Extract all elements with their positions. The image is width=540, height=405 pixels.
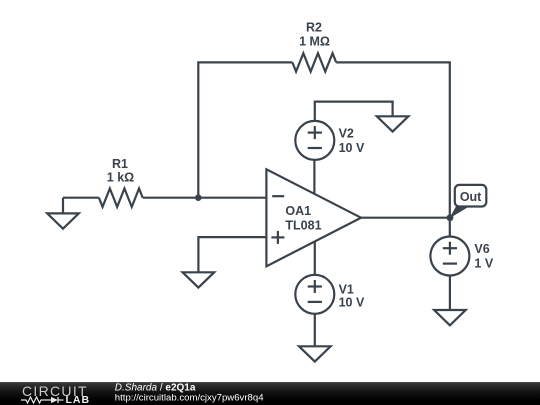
ground (V2 positive rail) xyxy=(377,116,409,131)
wire (R2 to output node) xyxy=(336,62,450,217)
wire (non-inverting input to ground stub) xyxy=(198,237,266,272)
svg-text:Out: Out xyxy=(460,190,482,204)
svg-text:V2: V2 xyxy=(339,126,354,140)
ground (non-inverting input) xyxy=(183,272,215,287)
voltage source V6 xyxy=(430,237,469,276)
svg-text:OA1: OA1 xyxy=(285,204,311,218)
resistor R1 xyxy=(99,189,143,207)
wire (R1 to op-amp inverting input) xyxy=(143,197,267,199)
svg-text:1 MΩ: 1 MΩ xyxy=(299,35,330,49)
wire (output node to V6) xyxy=(449,218,451,237)
flag Out (net label) xyxy=(450,185,487,218)
CircuitLab logo resistor-diode squiggle xyxy=(21,397,64,403)
svg-text:10 V: 10 V xyxy=(339,296,365,310)
svg-text:http://circuitlab.com/cjxy7pw6: http://circuitlab.com/cjxy7pw6vr8q4 xyxy=(115,393,264,404)
wire (op-amp V- pin to V1) xyxy=(314,242,316,275)
voltage source V2 xyxy=(295,121,334,160)
op-amp U1 OA1 body xyxy=(266,169,361,266)
ground (left of R1) xyxy=(47,198,79,229)
wire (op-amp output) xyxy=(361,217,450,219)
wire (op-amp V+ pin to V2) xyxy=(313,160,315,194)
ground (below V6) xyxy=(434,310,466,325)
node A (inverting input junction) xyxy=(195,194,202,201)
ground (below V1) xyxy=(299,346,331,361)
wire (node A up and along top to R2) xyxy=(198,62,292,197)
wire (V6 to ground) xyxy=(449,276,451,311)
svg-text:V1: V1 xyxy=(339,282,354,296)
svg-text:1 kΩ: 1 kΩ xyxy=(107,171,134,185)
svg-text:R1: R1 xyxy=(112,157,128,171)
svg-text:TL081: TL081 xyxy=(285,219,321,233)
svg-text:V6: V6 xyxy=(474,242,489,256)
wire (V2 top to ground arm) xyxy=(315,102,393,121)
svg-text:1 V: 1 V xyxy=(474,257,493,271)
wire (left end to R1) xyxy=(63,197,99,199)
voltage source V1 xyxy=(295,275,334,314)
svg-text:R2: R2 xyxy=(306,20,322,34)
op-amp OA1 plus input marker xyxy=(271,231,284,244)
node Out junction xyxy=(447,214,454,221)
resistor R2 xyxy=(292,53,336,71)
svg-text:LAB: LAB xyxy=(66,394,91,405)
op-amp OA1 minus input marker xyxy=(272,195,284,197)
wire (V1 to ground) xyxy=(314,314,316,347)
svg-text:10 V: 10 V xyxy=(339,141,365,155)
